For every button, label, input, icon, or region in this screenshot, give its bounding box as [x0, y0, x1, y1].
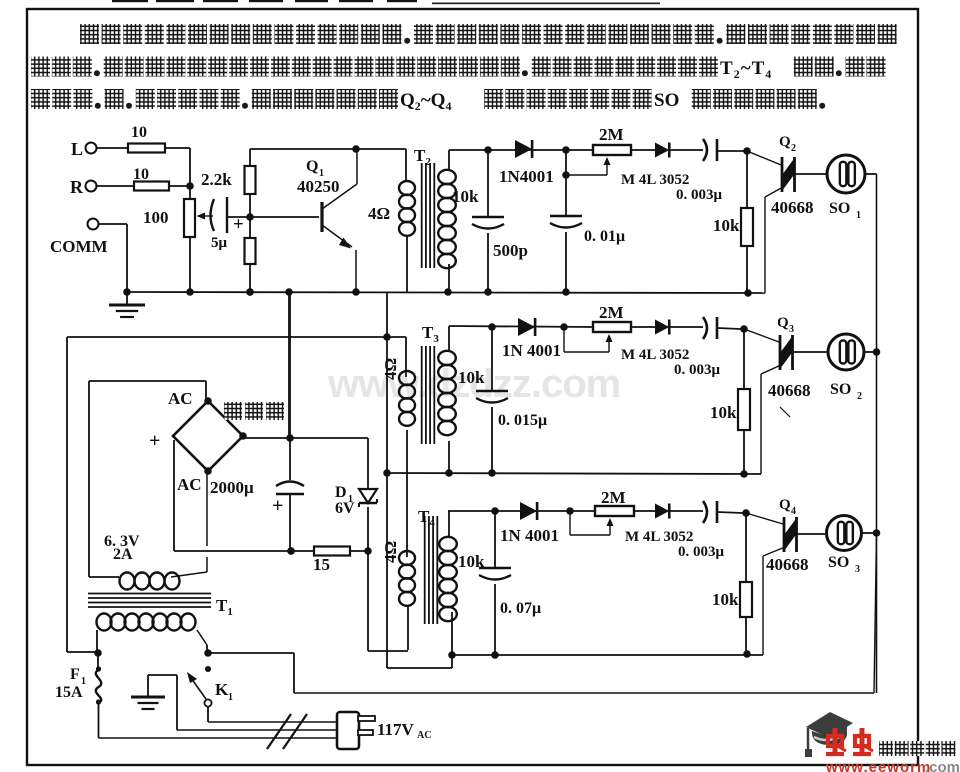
svg-text:40250: 40250 [297, 177, 340, 196]
svg-text:500p: 500p [493, 241, 528, 260]
svg-text:1N 4001: 1N 4001 [502, 341, 561, 360]
svg-text:6V: 6V [335, 500, 355, 517]
svg-text:L: L [71, 139, 83, 159]
svg-text:1: 1 [228, 692, 233, 703]
svg-text:K: K [215, 680, 229, 699]
svg-text:40668: 40668 [771, 198, 814, 217]
svg-text:2: 2 [791, 143, 796, 154]
svg-text:4Ω: 4Ω [381, 358, 400, 380]
svg-text:1N 4001: 1N 4001 [500, 526, 559, 545]
svg-text:3: 3 [855, 564, 860, 575]
svg-text:0. 015μ: 0. 015μ [498, 412, 547, 429]
svg-text:T2: T2 [414, 146, 431, 168]
svg-text:2M: 2M [599, 125, 624, 144]
svg-text:+: + [233, 214, 244, 235]
svg-text:SO: SO [830, 381, 851, 398]
svg-text:T4: T4 [418, 507, 435, 529]
svg-text:1: 1 [856, 210, 861, 221]
svg-text:AC: AC [168, 389, 193, 408]
svg-text:+: + [272, 495, 283, 517]
svg-text:T3: T3 [422, 323, 439, 345]
svg-text:10k: 10k [712, 590, 739, 609]
svg-text:M 4L 3052: M 4L 3052 [621, 347, 689, 363]
svg-text:2A: 2A [113, 546, 133, 563]
svg-text:+: + [149, 430, 160, 452]
svg-text:M 4L 3052: M 4L 3052 [625, 529, 693, 545]
svg-text:Q: Q [777, 315, 789, 331]
svg-text:T2~T4: T2~T4 [720, 58, 772, 81]
svg-text:SO: SO [829, 200, 850, 217]
svg-text:40668: 40668 [768, 381, 811, 400]
svg-text:www.eeworm: www.eeworm [825, 759, 931, 772]
svg-text:0. 003μ: 0. 003μ [676, 187, 723, 203]
svg-text:100: 100 [143, 208, 169, 227]
svg-text:F: F [70, 666, 80, 683]
svg-text:10: 10 [133, 166, 149, 183]
svg-text:0. 01μ: 0. 01μ [584, 228, 625, 245]
svg-text:SO: SO [654, 90, 679, 111]
svg-text:0. 07μ: 0. 07μ [500, 600, 541, 617]
svg-text:AC: AC [177, 475, 202, 494]
svg-text:10: 10 [131, 124, 147, 141]
svg-text:10k: 10k [710, 403, 737, 422]
svg-text:Q: Q [306, 158, 318, 175]
svg-text:4Ω: 4Ω [368, 204, 390, 223]
svg-text:10k: 10k [452, 187, 479, 206]
svg-text:2.2k: 2.2k [201, 170, 232, 189]
svg-text:117V: 117V [377, 720, 415, 739]
svg-text:Q2~Q4: Q2~Q4 [400, 90, 451, 113]
svg-text:AC: AC [417, 730, 431, 741]
svg-text:D: D [335, 484, 347, 501]
svg-text:2000μ: 2000μ [210, 478, 254, 497]
svg-text:2: 2 [857, 391, 862, 402]
svg-text:COMM: COMM [50, 237, 108, 256]
svg-text:.com: .com [925, 759, 960, 772]
svg-text:4: 4 [791, 506, 796, 517]
svg-text:3: 3 [789, 324, 794, 335]
svg-text:15: 15 [313, 555, 330, 574]
svg-text:0. 003μ: 0. 003μ [674, 362, 721, 378]
svg-text:4Ω: 4Ω [381, 541, 400, 563]
svg-text:2M: 2M [599, 303, 624, 322]
svg-text:M 4L 3052: M 4L 3052 [621, 172, 689, 188]
svg-text:0. 003μ: 0. 003μ [678, 544, 725, 560]
svg-text:SO: SO [828, 554, 849, 571]
svg-text:15A: 15A [55, 684, 83, 701]
svg-text:2M: 2M [601, 488, 626, 507]
svg-text:Q: Q [779, 134, 791, 150]
svg-text:T1: T1 [216, 596, 233, 618]
svg-text:R: R [70, 177, 84, 197]
svg-text:5μ: 5μ [211, 235, 228, 251]
svg-text:10k: 10k [713, 216, 740, 235]
svg-text:Q: Q [779, 497, 791, 513]
svg-text:1N4001: 1N4001 [499, 167, 554, 186]
svg-text:10k: 10k [458, 368, 485, 387]
svg-text:40668: 40668 [766, 555, 809, 574]
